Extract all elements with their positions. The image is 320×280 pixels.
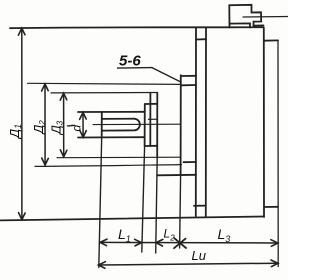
crossed arrow stroke 1 at L2/L3 boundary xyxy=(174,239,186,249)
arrow Lu right xyxy=(271,260,278,267)
endshield top tick xyxy=(196,38,206,40)
arrow D1 top xyxy=(18,28,25,35)
dimension line L1 L2 L3 xyxy=(100,241,278,244)
extension line from shaft end xyxy=(99,137,102,267)
bearing cap face xyxy=(156,93,158,158)
terminal box outline xyxy=(229,5,261,28)
centerline xyxy=(93,123,181,125)
shaft top xyxy=(78,111,145,113)
endshield bottom notch xyxy=(194,205,206,207)
arrow D1 bottom xyxy=(19,213,26,220)
arrow D3 top xyxy=(60,93,67,100)
dimension D1 line xyxy=(21,29,23,220)
collar bottom xyxy=(145,145,158,147)
arrow of L3 right xyxy=(271,240,278,247)
arrow d top xyxy=(80,112,87,119)
lead wire xyxy=(243,16,288,19)
collar inner line xyxy=(149,94,151,147)
label d ascender stroke xyxy=(68,124,75,127)
rear housing top xyxy=(264,39,278,41)
note 5-6 underline xyxy=(118,67,153,70)
flange bolt hole tick bottom xyxy=(184,161,197,163)
dimension D2 line xyxy=(44,84,46,165)
dimension d line xyxy=(82,112,84,137)
flange bolt hole tick top xyxy=(182,84,196,86)
rear housing bottom xyxy=(264,206,278,208)
motor body left edge xyxy=(195,28,197,217)
terminal box bottom edge xyxy=(230,23,251,27)
collar bearing tick xyxy=(149,118,158,120)
dimension D3 line xyxy=(63,93,65,157)
terminal box bottom right lip xyxy=(254,24,264,26)
endshield joint line xyxy=(205,28,207,217)
flange top edge xyxy=(181,75,196,77)
D3 lower extension line xyxy=(57,156,181,159)
note 5-6 leader xyxy=(152,68,180,82)
bottom line (body bottom / D1 lower extension) xyxy=(1,217,265,221)
keyway xyxy=(102,119,140,131)
extension line from shaft step xyxy=(142,146,145,252)
svg-text:5-6: 5-6 xyxy=(119,53,141,70)
extension line from bearing cap face xyxy=(156,158,158,254)
crossed arrow stroke 2 at L2/L3 boundary xyxy=(174,238,186,248)
arrow L1 left xyxy=(100,239,107,246)
flange / housing bottom edge xyxy=(157,174,196,177)
D3 upper extension line xyxy=(51,92,157,94)
dimension line Lu xyxy=(98,263,278,265)
arrow D2 top xyxy=(42,84,49,91)
mounting flange left edge xyxy=(180,75,182,175)
extension line from flange xyxy=(180,175,181,248)
arrow d bottom xyxy=(80,130,87,137)
D2 lower extension line xyxy=(35,165,182,167)
arrow L2 left xyxy=(156,239,163,246)
arrow D3 bottom xyxy=(60,150,67,157)
collar top xyxy=(145,103,158,105)
shaft bottom xyxy=(78,136,145,138)
rear housing right edge + extension xyxy=(277,40,279,266)
top extension line (body top, D1 upper) xyxy=(10,27,264,28)
svg-text:Lu: Lu xyxy=(192,248,206,263)
arrow D2 bottom xyxy=(42,158,49,165)
arrow Lu left xyxy=(98,262,105,269)
collar front face xyxy=(144,104,146,146)
motor body right edge xyxy=(263,28,265,218)
arrow L1 right xyxy=(135,239,142,246)
D2 upper extension line xyxy=(28,83,181,84)
shaft end face xyxy=(101,112,103,137)
